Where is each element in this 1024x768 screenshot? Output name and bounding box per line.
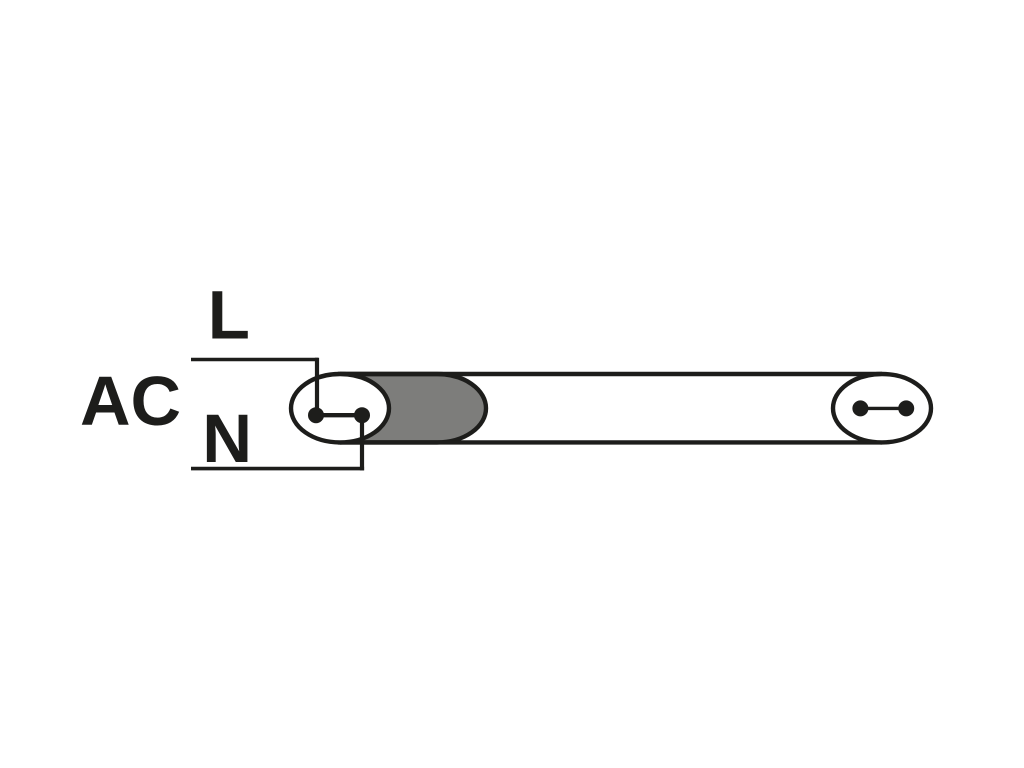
svg-text:N: N	[202, 400, 252, 477]
right cap pin link	[860, 407, 906, 410]
right cap pin 1	[852, 400, 868, 416]
svg-text:AC: AC	[80, 362, 181, 440]
left cap pin 1	[308, 407, 324, 423]
end cap left	[291, 374, 389, 442]
wire N vertical	[360, 415, 364, 470]
tube top wall	[340, 372, 882, 376]
end cap right	[833, 374, 931, 442]
tube bottom wall	[340, 440, 882, 444]
wire L horizontal	[191, 358, 318, 361]
left cap pin 2	[354, 407, 370, 423]
left cap pin link	[316, 413, 362, 417]
wire N horizontal	[191, 467, 364, 471]
driver section (gray)	[340, 374, 486, 442]
wire L vertical	[315, 358, 319, 415]
right cap pin 2	[898, 400, 914, 416]
svg-text:L: L	[208, 277, 250, 354]
